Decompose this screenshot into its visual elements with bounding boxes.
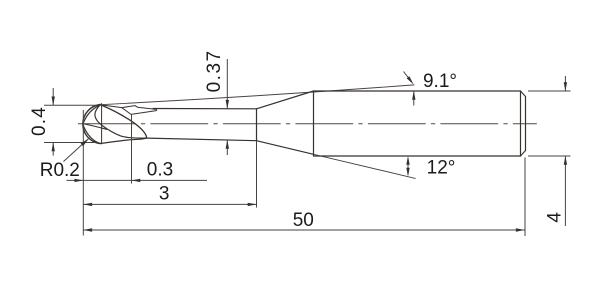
arrow 3 right [248,203,257,206]
dim 0.4 line [52,88,54,156]
arrow R0.2 [81,139,89,146]
arrow 4 top [564,82,567,91]
shank end outer vertical [525,97,527,151]
shank end extension line [524,158,526,237]
gash bottom silhouette [100,138,146,143]
arrow 0.4 bottom [52,143,55,152]
leader R0.2 [64,139,89,162]
neck end extension line [256,141,258,208]
ball tangency line [101,104,103,144]
tip face edge [83,124,106,130]
tip extension line [82,110,84,236]
neck bottom line [147,138,257,141]
arrow 9.1 slant [407,76,414,84]
dim 4 extension top [528,90,571,92]
neck top line [153,108,257,110]
arrow 12 down [406,168,409,177]
svg-text:4: 4 [544,212,565,223]
shank end inner vertical [520,91,522,156]
svg-text:3: 3 [159,183,170,204]
arrow 50 left [83,228,92,231]
svg-text:R0.2: R0.2 [40,160,80,181]
leaf inner cutting edge [83,125,100,144]
land edge to flag [100,105,121,108]
shank start vertical [313,91,315,156]
shank end chamfer top [521,91,526,97]
dim 4 line [564,76,566,226]
dim 4 extension bottom [528,155,571,157]
dim 50 line [83,229,524,231]
cone bottom extension 12deg [314,154,416,178]
shank end chamfer bottom [521,151,526,157]
svg-text:0.37: 0.37 [204,49,225,92]
dim 0.4 extension bottom [44,142,95,144]
shank top line [314,90,521,92]
cone bottom line [257,141,314,155]
neck-cone junction vertical [256,109,258,141]
ball nose arc [83,105,100,144]
dim 0.3 line [67,179,208,181]
dim 9.1 lower tail [413,91,415,106]
dim 9.1 slant leader [404,72,412,82]
svg-text:12°: 12° [427,158,456,179]
arrow 50 right [516,228,525,231]
arrow 9.1 up [412,91,415,100]
flag (second flute gash) [122,106,157,115]
svg-text:9.1°: 9.1° [423,71,457,92]
flute end extension line [131,115,133,184]
arrow 4 bottom [564,156,567,165]
arrow 0.3 left [75,179,84,182]
cone top line [257,91,314,109]
svg-text:0.4: 0.4 [29,106,50,136]
dim 3 line [83,203,256,205]
flute-2 edge arc inside ball [83,105,100,123]
svg-text:0.3: 0.3 [147,160,173,181]
clearance taper line [100,85,414,105]
shank bottom line [314,155,521,157]
dim 0.37 line [226,59,228,155]
arrow 0.4 top [52,97,55,106]
dim 12 segment [407,158,409,175]
arrow 0.37 bottom [226,140,229,149]
arrow 12 up [406,156,409,165]
centerline axis [78,123,536,125]
dim 0.4 extension top [44,104,97,106]
S cutting edge across ball face [95,105,147,138]
helix cutting edge [100,105,146,138]
arrow 0.3 right [132,179,141,182]
arrow 0.37 top [226,100,229,109]
svg-text:50: 50 [293,210,314,231]
arrow 3 left [83,203,92,206]
